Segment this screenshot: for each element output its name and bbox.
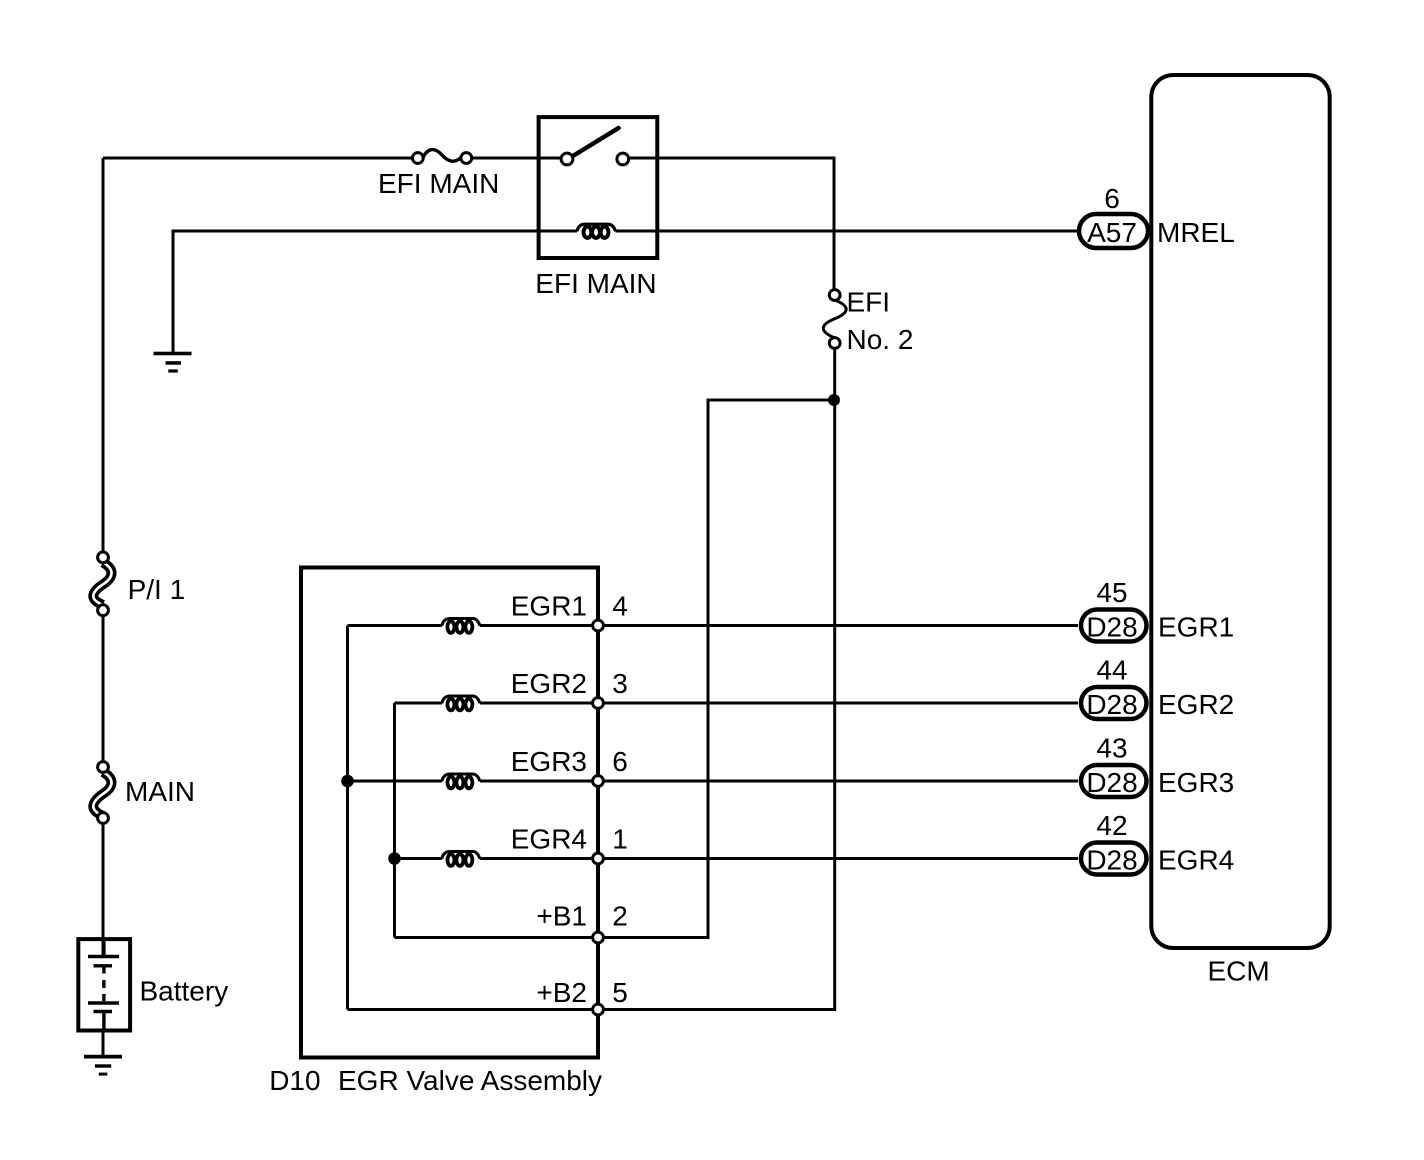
svg-text:45: 45 xyxy=(1096,577,1127,608)
svg-text:6: 6 xyxy=(612,746,628,777)
svg-text:EGR4: EGR4 xyxy=(511,823,587,854)
svg-text:42: 42 xyxy=(1096,810,1127,841)
svg-text:EGR3: EGR3 xyxy=(511,746,587,777)
svg-text:6: 6 xyxy=(1104,183,1120,214)
svg-text:EGR1: EGR1 xyxy=(511,590,587,621)
svg-text:1: 1 xyxy=(612,823,628,854)
svg-text:EFI MAIN: EFI MAIN xyxy=(378,168,499,199)
svg-text:Battery: Battery xyxy=(140,976,229,1007)
svg-text:EFI MAIN: EFI MAIN xyxy=(535,268,656,299)
svg-text:D28: D28 xyxy=(1086,612,1137,643)
svg-text:EFI: EFI xyxy=(847,286,891,317)
svg-text:No. 2: No. 2 xyxy=(847,324,914,355)
svg-text:MAIN: MAIN xyxy=(125,776,195,807)
svg-text:D28: D28 xyxy=(1086,845,1137,876)
svg-text:P/I 1: P/I 1 xyxy=(128,574,186,605)
svg-text:44: 44 xyxy=(1096,655,1127,686)
svg-text:EGR4: EGR4 xyxy=(1158,845,1234,876)
svg-text:4: 4 xyxy=(612,590,628,621)
svg-text:3: 3 xyxy=(612,668,628,699)
svg-text:43: 43 xyxy=(1096,733,1127,764)
svg-text:2: 2 xyxy=(612,901,628,932)
svg-text:MREL: MREL xyxy=(1157,217,1235,248)
svg-text:5: 5 xyxy=(612,977,628,1008)
svg-text:D28: D28 xyxy=(1086,689,1137,720)
svg-text:EGR3: EGR3 xyxy=(1158,767,1234,798)
svg-text:EGR2: EGR2 xyxy=(1158,689,1234,720)
svg-text:A57: A57 xyxy=(1087,217,1137,248)
svg-text:+B2: +B2 xyxy=(536,977,587,1008)
svg-text:EGR Valve Assembly: EGR Valve Assembly xyxy=(338,1065,602,1096)
svg-text:D10: D10 xyxy=(269,1065,320,1096)
svg-text:ECM: ECM xyxy=(1208,956,1270,987)
svg-text:D28: D28 xyxy=(1086,767,1137,798)
svg-text:EGR1: EGR1 xyxy=(1158,612,1234,643)
svg-text:+B1: +B1 xyxy=(536,901,587,932)
svg-text:EGR2: EGR2 xyxy=(511,668,587,699)
